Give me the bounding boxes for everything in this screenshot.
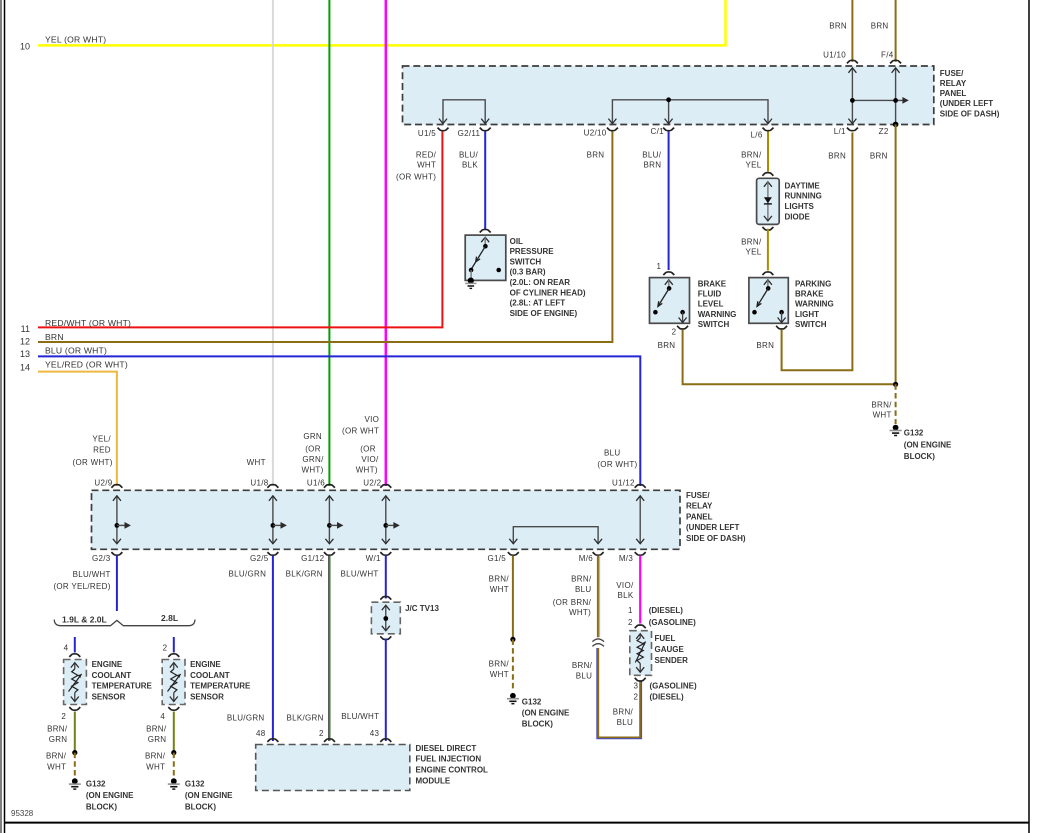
svg-text:SWITCH: SWITCH [510, 257, 542, 266]
wire RED/WHT from U1/5 to row 11 [38, 132, 442, 328]
svg-text:PANEL: PANEL [940, 89, 967, 98]
svg-text:BRN/: BRN/ [146, 724, 167, 733]
svg-text:1.9L & 2.0L: 1.9L & 2.0L [62, 614, 107, 624]
daytime running lights diode [757, 178, 780, 224]
svg-text:RELAY: RELAY [940, 79, 967, 88]
svg-text:(ON ENGINE: (ON ENGINE [185, 791, 233, 800]
svg-text:2: 2 [628, 618, 633, 627]
svg-text:BLU/WHT: BLU/WHT [73, 570, 111, 579]
svg-text:(ON ENGINE: (ON ENGINE [522, 709, 570, 718]
svg-text:LEVEL: LEVEL [698, 300, 724, 309]
svg-text:L/1: L/1 [834, 127, 846, 136]
wire BLU/WHT (OR YEL/RED) from G2/3 [116, 556, 118, 612]
junction connector J/C TV13 [380, 597, 391, 600]
panel internal link U1/5 - G2/11 [443, 100, 485, 123]
wire BRN from Z2 down [895, 124, 897, 384]
wire BRN brake fluid switch to Z2 junction [683, 330, 896, 385]
panel internal wire F/4 to Z2 [895, 69, 897, 125]
wire BLU/BLK from G2/11 to oil pressure switch [484, 132, 486, 230]
svg-text:WHT: WHT [417, 161, 436, 170]
svg-text:WHT: WHT [47, 762, 66, 771]
svg-text:BLU (OR WHT): BLU (OR WHT) [45, 346, 107, 356]
junction F/4-Z2 internal [893, 98, 898, 103]
pin G1/5 [508, 552, 519, 555]
parking brake warning light switch [749, 278, 788, 324]
svg-text:2.8L: 2.8L [161, 613, 178, 623]
svg-text:J/C TV13: J/C TV13 [405, 604, 439, 613]
wire WHT vertical to U1/8 [272, 0, 274, 486]
svg-text:G132: G132 [86, 780, 106, 789]
junction BRN wires at Z2 ground branch [893, 382, 898, 387]
svg-text:SIDE OF DASH): SIDE OF DASH) [686, 534, 746, 543]
pin U1/5 [438, 128, 449, 131]
wire BRN/WHT dashed to G132 [895, 384, 897, 424]
junction on G1/5 ground wire [510, 637, 515, 642]
svg-text:BLU/WHT: BLU/WHT [341, 712, 379, 721]
svg-text:FUEL INJECTION: FUEL INJECTION [416, 755, 482, 764]
engine coolant temperature sensor 1 (1.9L & 2.0L) [64, 660, 87, 705]
svg-text:BRN/: BRN/ [871, 400, 892, 409]
svg-text:WHT: WHT [146, 762, 165, 771]
pin 43 ECM [380, 739, 391, 742]
svg-text:RUNNING: RUNNING [785, 192, 822, 201]
svg-text:12: 12 [20, 336, 30, 346]
svg-text:W/1: W/1 [366, 554, 381, 563]
svg-text:G132: G132 [904, 429, 924, 438]
svg-text:PANEL: PANEL [686, 512, 713, 521]
pin M/6 [593, 552, 604, 555]
svg-text:(ON ENGINE: (ON ENGINE [86, 791, 134, 800]
svg-text:RED/: RED/ [416, 151, 437, 160]
svg-text:BRN/: BRN/ [489, 575, 510, 584]
pin U1/12 [635, 485, 646, 488]
fuse/relay panel (top) [403, 66, 934, 125]
svg-text:(ON ENGINE: (ON ENGINE [904, 440, 952, 449]
svg-text:BLOCK): BLOCK) [522, 720, 553, 729]
svg-text:BRN/: BRN/ [572, 661, 593, 670]
svg-text:(OR BRN/: (OR BRN/ [553, 598, 592, 607]
svg-text:BLU/GRN: BLU/GRN [227, 713, 265, 722]
svg-text:(OR WHT): (OR WHT) [73, 458, 113, 467]
svg-text:G132: G132 [522, 698, 542, 707]
wire BRN/YEL from L/6 to diode [767, 132, 769, 172]
diesel direct fuel injection engine control module [256, 745, 410, 791]
svg-text:G1/12: G1/12 [301, 554, 325, 563]
svg-text:MODULE: MODULE [416, 776, 451, 785]
junction L/1 internal [850, 98, 855, 103]
engine coolant temperature sensor 2 (2.8L) [162, 660, 185, 705]
svg-text:YEL/RED (OR WHT): YEL/RED (OR WHT) [45, 360, 128, 370]
svg-text:BLU/GRN: BLU/GRN [229, 569, 267, 578]
svg-text:10: 10 [20, 42, 30, 52]
brake fluid level warning switch [650, 278, 690, 324]
junction to ground wire [171, 750, 176, 755]
svg-text:2: 2 [319, 729, 324, 738]
svg-text:U1/6: U1/6 [307, 479, 325, 488]
pin U2/2 [380, 485, 391, 488]
panel internal link G1/5 - M/6 [513, 527, 598, 543]
svg-text:M/3: M/3 [619, 554, 633, 563]
svg-text:BRN: BRN [587, 151, 605, 160]
svg-text:BLU/: BLU/ [642, 151, 661, 160]
wire BRN/WHT from G1/5 [512, 556, 514, 640]
svg-text:YEL: YEL [745, 161, 761, 170]
pin 1 brake fluid switch [663, 272, 674, 275]
svg-text:(OR WHT: (OR WHT [342, 426, 379, 435]
svg-text:VIO/: VIO/ [616, 581, 634, 590]
panel internal arrow at x=385.8 [385, 497, 387, 543]
panel internal arrow at x=116.9 [116, 497, 118, 543]
svg-text:VIO: VIO [365, 415, 380, 424]
svg-text:SIDE OF ENGINE): SIDE OF ENGINE) [510, 309, 578, 318]
panel internal arrow U1/12 - M/3 [639, 497, 641, 543]
svg-text:U2/9: U2/9 [94, 479, 112, 488]
svg-text:FUSE/: FUSE/ [686, 491, 710, 500]
svg-text:BRN/: BRN/ [489, 659, 510, 668]
junction C/1 internal [666, 97, 671, 102]
pin L/6 [763, 128, 774, 131]
svg-text:U2/2: U2/2 [363, 479, 381, 488]
svg-text:GRN/: GRN/ [302, 455, 324, 464]
svg-text:(OR YEL/RED): (OR YEL/RED) [53, 582, 110, 591]
svg-text:GAUGE: GAUGE [655, 645, 685, 654]
wire GRN (OR GRN/WHT) vertical to U1/6 [328, 0, 330, 486]
svg-text:BRAKE: BRAKE [698, 279, 727, 288]
svg-text:ENGINE CONTROL: ENGINE CONTROL [416, 766, 489, 775]
svg-text:BLU/: BLU/ [459, 151, 478, 160]
pin 2 brake fluid switch [677, 326, 688, 329]
svg-text:RELAY: RELAY [686, 502, 713, 511]
svg-text:13: 13 [20, 349, 30, 359]
svg-text:2: 2 [61, 712, 66, 721]
pin C/1 [663, 128, 674, 131]
svg-text:3: 3 [634, 682, 639, 691]
pin U1/8 [267, 485, 278, 488]
svg-text:4: 4 [160, 712, 165, 721]
pin 2 parking brake switch [776, 326, 787, 329]
svg-text:WHT: WHT [490, 585, 509, 594]
wire BLU/WHT from J/C TV13 to ECM pin 43 [385, 639, 387, 742]
panel internal arrow L/1 [851, 69, 853, 123]
svg-text:(GASOLINE): (GASOLINE) [650, 682, 697, 691]
pin G2/3 [111, 552, 122, 555]
svg-text:WHT): WHT) [569, 608, 591, 617]
svg-text:SENSOR: SENSOR [92, 692, 126, 701]
svg-text:BLK/GRN: BLK/GRN [286, 569, 323, 578]
svg-text:BRN: BRN [871, 21, 889, 30]
svg-text:PARKING: PARKING [795, 279, 831, 288]
wire break symbol on M/6 wire [592, 639, 604, 642]
wire BRN/WHT dashed to G132 [512, 639, 514, 691]
svg-text:FUSE/: FUSE/ [940, 69, 964, 78]
svg-text:2: 2 [634, 692, 639, 701]
svg-text:SWITCH: SWITCH [698, 320, 730, 329]
wire VIO (OR WHT OR VIO/WHT) vertical to U2/2 [385, 0, 388, 486]
wire BLK/GRN from G1/12 to ECM pin 2 [328, 556, 330, 742]
svg-text:1: 1 [628, 606, 633, 615]
fuel gauge sender [635, 625, 646, 628]
wire BLU/WHT from W/1 to J/C TV13 [385, 556, 387, 599]
pin G2/5 [267, 552, 278, 555]
svg-text:WHT): WHT) [356, 465, 378, 474]
ground G132 on engine block [171, 778, 177, 784]
svg-text:G1/5: G1/5 [487, 554, 506, 563]
svg-text:BRN: BRN [658, 341, 676, 350]
svg-text:BLU: BLU [576, 672, 592, 681]
svg-text:U1/8: U1/8 [250, 479, 268, 488]
svg-text:BRN: BRN [870, 151, 888, 160]
svg-text:LIGHT: LIGHT [795, 310, 819, 319]
svg-text:TEMPERATURE: TEMPERATURE [92, 682, 153, 691]
svg-text:OF CYLINER HEAD): OF CYLINER HEAD) [510, 288, 586, 297]
ground inside oil pressure switch [468, 278, 474, 284]
svg-text:PRESSURE: PRESSURE [510, 247, 555, 256]
wire stub to sensor 1 pin 4 [74, 637, 76, 653]
pin F/4 [890, 60, 901, 63]
svg-text:RED/WHT (OR WHT): RED/WHT (OR WHT) [45, 318, 131, 328]
svg-text:YEL: YEL [745, 247, 761, 256]
wire YEL/RED (OR WHT) row 14 to U2/9 [38, 372, 117, 486]
svg-text:BRN/: BRN/ [571, 575, 592, 584]
svg-text:BLU: BLU [617, 718, 633, 727]
svg-text:WARNING: WARNING [795, 300, 834, 309]
wire BRN/WHT dashed to ground [173, 753, 175, 777]
wire BLU (OR WHT) row 13 to U1/12 [38, 356, 640, 486]
wire BRN/YEL diode to parking brake switch [767, 229, 769, 271]
svg-text:SENDER: SENDER [655, 656, 689, 665]
wire BRN/GRN below sensor [74, 712, 76, 753]
panel internal link U2/10 - C/1 - L/6 [612, 100, 768, 123]
wire BRN/GRN below sensor [173, 712, 175, 753]
svg-text:G2/11: G2/11 [458, 129, 481, 138]
svg-text:U1/5: U1/5 [418, 129, 436, 138]
wire BRN/WHT dashed to ground [74, 753, 76, 777]
ground G132 on engine block [72, 778, 78, 784]
svg-text:BRN/: BRN/ [46, 752, 67, 761]
svg-text:BRN: BRN [828, 151, 846, 160]
svg-text:WHT: WHT [490, 670, 509, 679]
wire BLU/BRN from C/1 to brake fluid level switch [668, 132, 670, 271]
wire BRN vertical to F/4 [895, 0, 897, 62]
svg-text:14: 14 [20, 363, 30, 373]
svg-text:BLOCK): BLOCK) [904, 452, 935, 461]
svg-text:(OR WHT): (OR WHT) [396, 172, 436, 181]
svg-text:WARNING: WARNING [698, 310, 737, 319]
svg-text:BRN: BRN [644, 161, 662, 170]
svg-text:U1/10: U1/10 [823, 51, 846, 60]
fuse/relay panel (lower) [92, 490, 681, 549]
pin 2 ECM [324, 739, 335, 742]
svg-text:F/4: F/4 [881, 51, 894, 60]
junction to ground wire [72, 750, 77, 755]
svg-text:(DIESEL): (DIESEL) [649, 606, 684, 615]
svg-text:GRN: GRN [303, 432, 322, 441]
svg-text:G2/5: G2/5 [250, 554, 269, 563]
svg-text:1: 1 [657, 262, 662, 271]
pin 2 below sensor at x=74.8 [69, 707, 80, 710]
svg-text:BLOCK): BLOCK) [86, 802, 117, 811]
svg-text:11: 11 [21, 324, 30, 334]
ground G132 (right, on engine block) [893, 425, 899, 431]
svg-text:ENGINE: ENGINE [92, 660, 123, 669]
svg-text:BRN: BRN [45, 332, 64, 342]
pin U2/9 [111, 485, 122, 488]
svg-text:DIODE: DIODE [785, 213, 811, 222]
svg-text:BLK: BLK [617, 591, 633, 600]
wire BRN/BLU from break to fuel gauge sender [598, 648, 640, 738]
panel internal arrow at x=329.4 [328, 497, 330, 543]
wire BRN/BLU (OR BRN/WHT) from M/6 [597, 556, 599, 638]
panel internal arrow at x=272.9 [272, 497, 274, 543]
svg-text:48: 48 [256, 729, 266, 738]
svg-text:YEL/: YEL/ [92, 435, 111, 444]
svg-text:M/6: M/6 [579, 554, 593, 563]
svg-text:(OR WHT): (OR WHT) [597, 460, 637, 469]
svg-text:WHT: WHT [873, 411, 892, 420]
wire YEL (OR WHT) row 10 horizontal feed [38, 0, 726, 45]
pin M/3 [635, 552, 646, 555]
svg-text:SIDE OF DASH): SIDE OF DASH) [940, 109, 1000, 118]
wire BLU/GRN from G2/5 to ECM pin 48 [272, 556, 274, 742]
svg-text:OIL: OIL [510, 237, 523, 246]
svg-text:TEMPERATURE: TEMPERATURE [190, 682, 251, 691]
svg-text:2: 2 [163, 643, 168, 652]
pin G2/11 [480, 128, 491, 131]
svg-text:BRN/: BRN/ [613, 708, 634, 717]
panel internal bus to right [852, 99, 903, 101]
pin 4 below sensor at x=173.8 [168, 707, 179, 710]
svg-text:U1/12: U1/12 [612, 479, 635, 488]
svg-text:2: 2 [672, 328, 677, 337]
svg-text:RED: RED [93, 446, 111, 455]
svg-text:DAYTIME: DAYTIME [785, 181, 821, 190]
svg-text:(DIESEL): (DIESEL) [650, 692, 685, 701]
svg-text:BRN/: BRN/ [741, 151, 762, 160]
wire stub to sensor 2 pin 2 [173, 637, 175, 653]
junction Z2 at panel edge [893, 122, 899, 128]
svg-text:BRN/: BRN/ [47, 724, 68, 733]
svg-text:LIGHTS: LIGHTS [785, 202, 815, 211]
svg-text:BLK/GRN: BLK/GRN [286, 713, 323, 722]
wire BRN from U2/10 to row 12 [38, 132, 612, 343]
svg-text:WHT): WHT) [302, 465, 324, 474]
svg-text:(OR: (OR [360, 445, 376, 454]
pin G1/12 [324, 552, 335, 555]
pin U1/6 [324, 485, 335, 488]
pin 48 ECM [267, 739, 278, 742]
svg-text:WHT: WHT [247, 458, 266, 467]
wire BRN parking brake switch to L/1 [782, 133, 853, 371]
svg-text:BRN: BRN [829, 21, 847, 30]
pin U1/10 [847, 60, 858, 63]
svg-text:COOLANT: COOLANT [92, 671, 132, 680]
svg-text:ENGINE: ENGINE [190, 660, 221, 669]
svg-text:G132: G132 [185, 780, 205, 789]
svg-text:COOLANT: COOLANT [190, 671, 230, 680]
engine variant brace 1.9L/2.0L vs 2.8L [54, 620, 195, 626]
svg-text:BLU: BLU [575, 585, 591, 594]
svg-text:VIO/: VIO/ [361, 455, 379, 464]
pin L/1 [847, 128, 858, 131]
svg-text:BLOCK): BLOCK) [185, 802, 216, 811]
svg-text:4: 4 [64, 643, 69, 652]
svg-text:BRN/: BRN/ [145, 752, 166, 761]
svg-text:L/6: L/6 [751, 131, 763, 140]
svg-text:C/1: C/1 [651, 127, 665, 136]
svg-text:(2.8L: AT LEFT: (2.8L: AT LEFT [510, 299, 566, 308]
svg-text:GRN: GRN [49, 735, 68, 744]
svg-text:(OR: (OR [305, 445, 321, 454]
pin W/1 [380, 552, 391, 555]
svg-text:G2/3: G2/3 [92, 554, 111, 563]
oil pressure switch [465, 235, 506, 280]
svg-text:(0.3 BAR): (0.3 BAR) [510, 268, 546, 277]
svg-text:(2.0L: ON REAR: (2.0L: ON REAR [510, 278, 571, 287]
svg-text:GRN: GRN [148, 735, 167, 744]
svg-text:DIESEL DIRECT: DIESEL DIRECT [416, 744, 477, 753]
svg-text:BRN: BRN [756, 341, 774, 350]
svg-text:U2/10: U2/10 [584, 129, 607, 138]
svg-text:FUEL: FUEL [655, 634, 676, 643]
svg-text:YEL (OR WHT): YEL (OR WHT) [45, 35, 106, 45]
svg-text:BLU: BLU [604, 449, 620, 458]
svg-text:Z2: Z2 [879, 127, 889, 136]
svg-text:BLU/WHT: BLU/WHT [340, 569, 378, 578]
svg-text:(UNDER LEFT: (UNDER LEFT [940, 99, 993, 108]
svg-text:43: 43 [370, 729, 380, 738]
svg-text:FLUID: FLUID [698, 289, 722, 298]
svg-text:(UNDER LEFT: (UNDER LEFT [686, 523, 739, 532]
svg-text:BLK: BLK [462, 161, 478, 170]
wire BRN vertical to U1/10 [851, 0, 853, 62]
svg-text:95328: 95328 [11, 809, 34, 818]
pin U2/10 [607, 128, 618, 131]
svg-text:BRAKE: BRAKE [795, 289, 824, 298]
wire VIO/BLK from M/3 to fuel gauge sender [639, 556, 641, 624]
svg-text:SENSOR: SENSOR [190, 692, 224, 701]
svg-text:SWITCH: SWITCH [795, 320, 827, 329]
svg-text:(GASOLINE): (GASOLINE) [649, 618, 696, 627]
ground G132 (center, on engine block) [510, 693, 516, 699]
svg-text:BRN/: BRN/ [741, 237, 762, 246]
